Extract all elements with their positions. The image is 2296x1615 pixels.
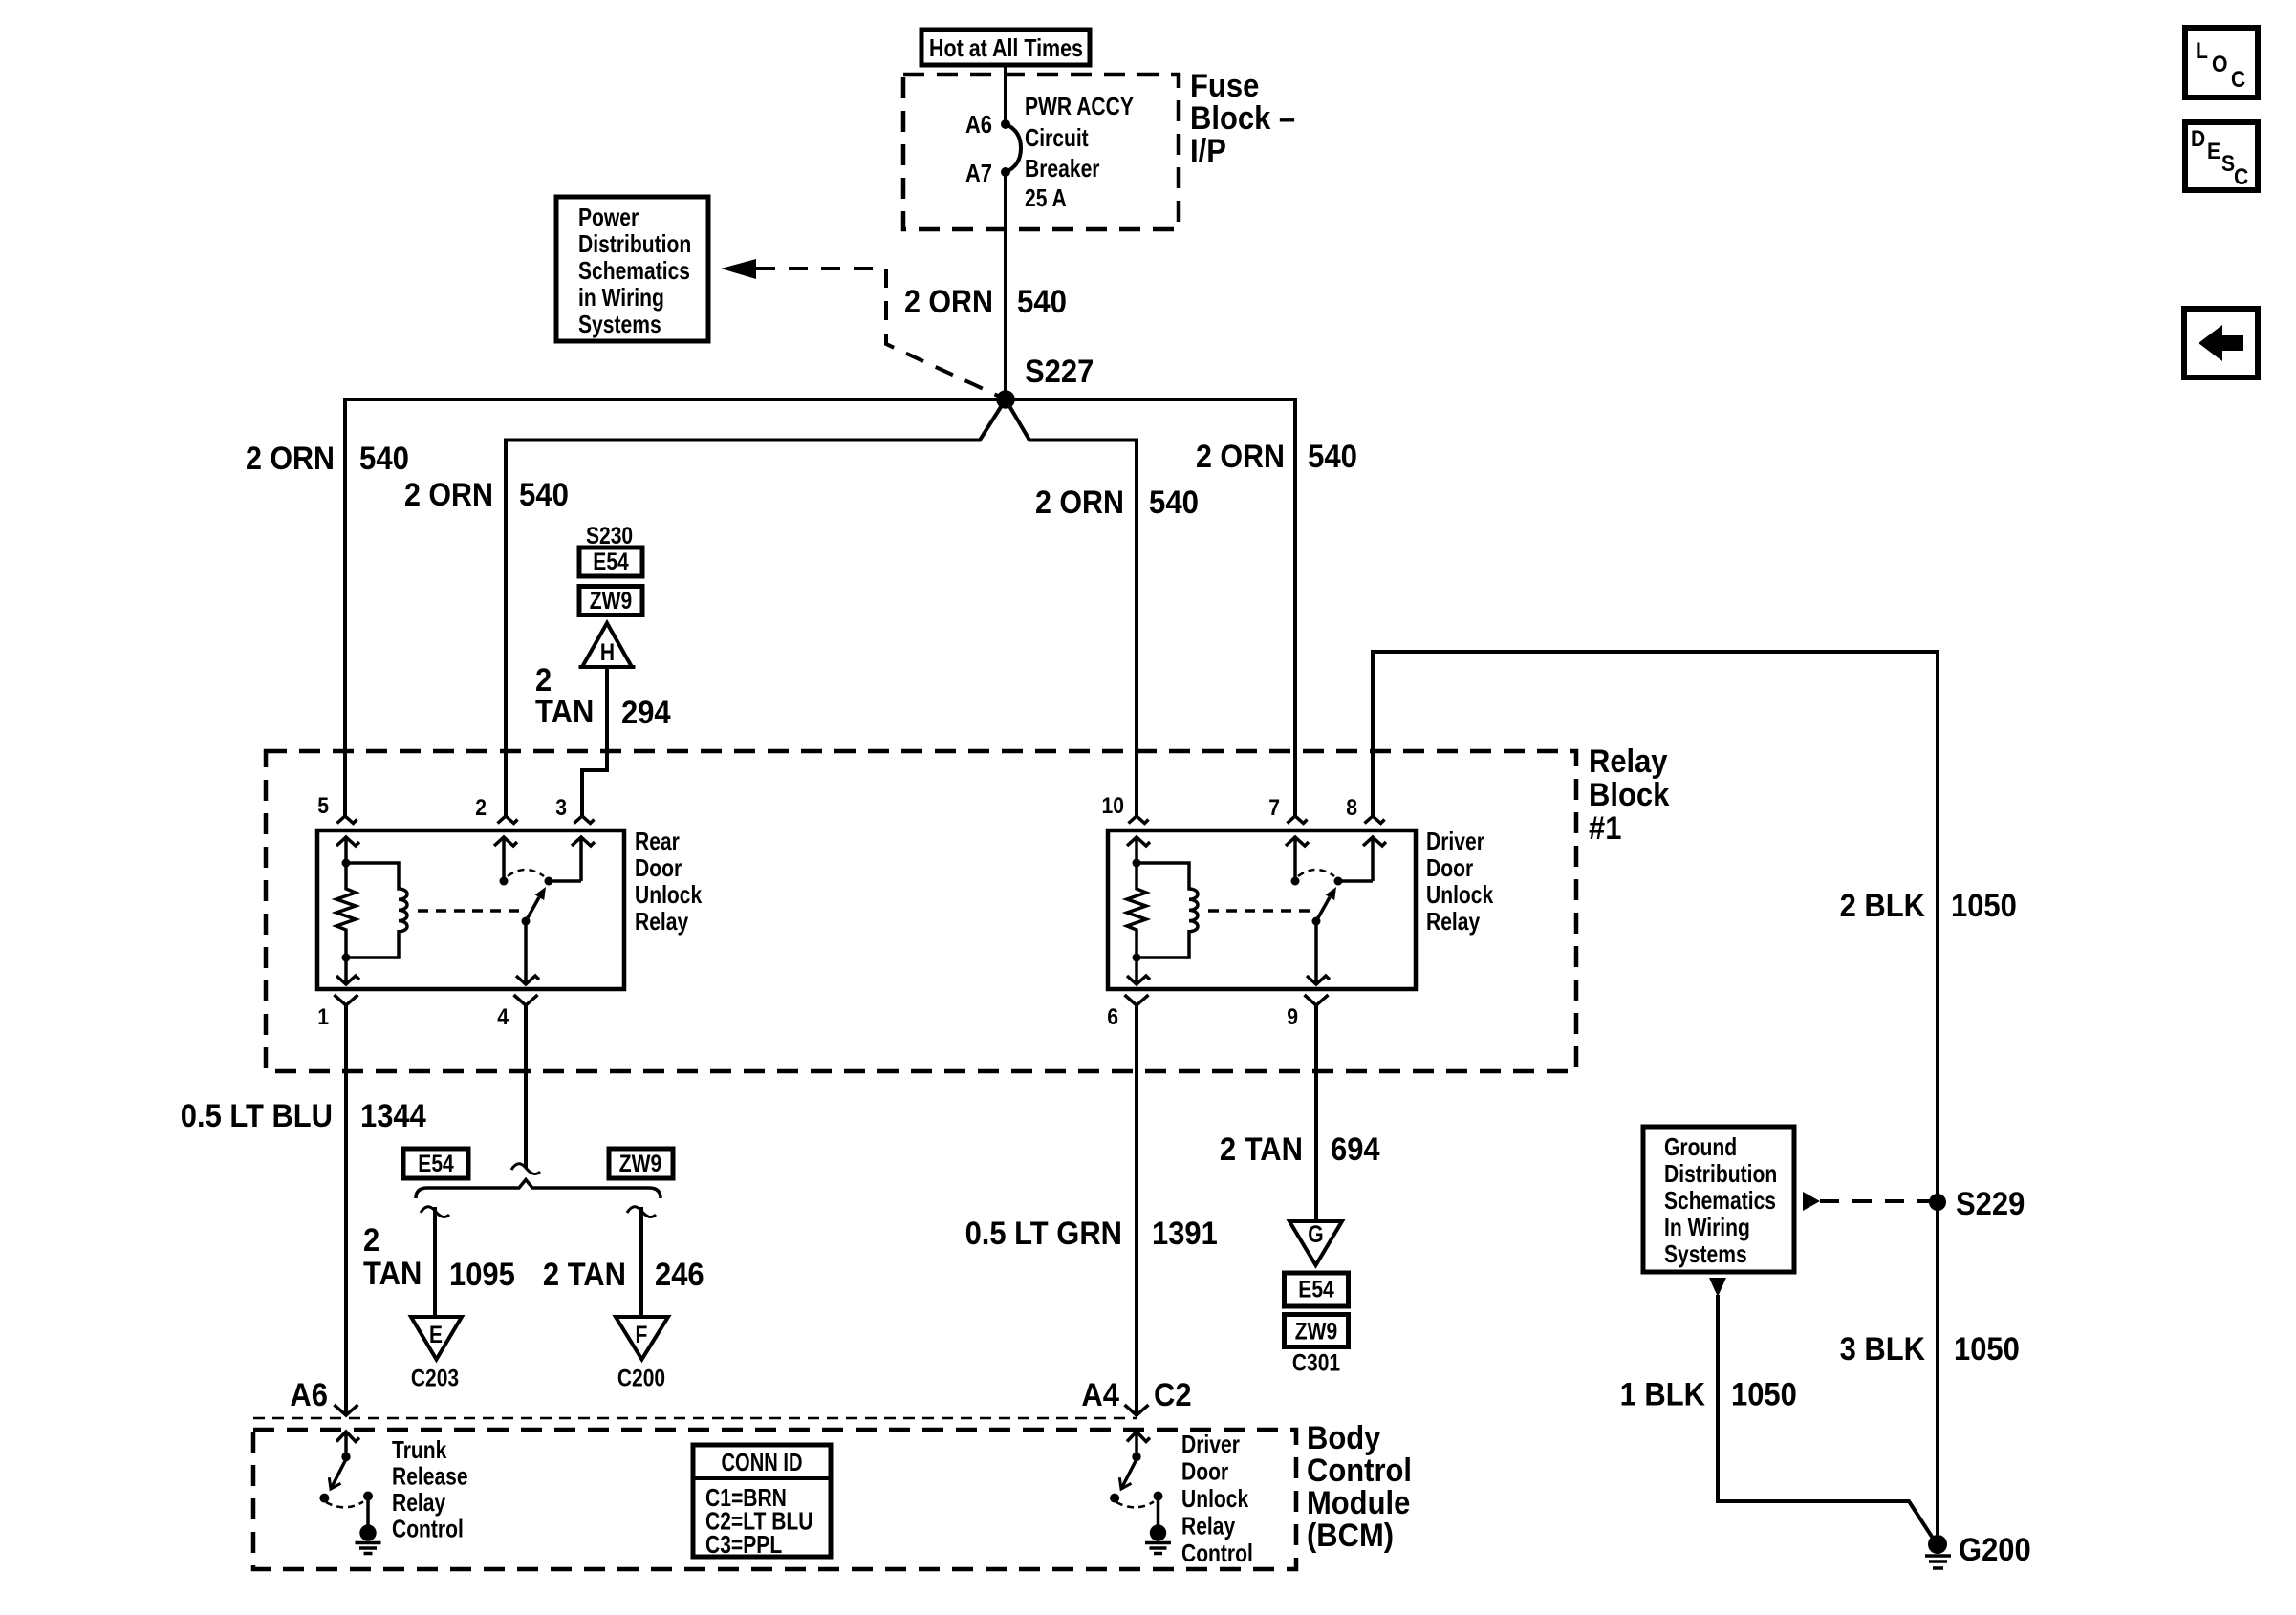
svg-text:5: 5	[317, 793, 329, 819]
Relay Block #1 dashed boundary	[266, 751, 1576, 1071]
wire: 2 TAN from relay pin 4 to harness brace	[524, 1005, 528, 1168]
svg-text:1050: 1050	[1951, 888, 2017, 924]
relay internal pin 4 arrow	[516, 921, 539, 984]
svg-text:C203: C203	[411, 1366, 459, 1392]
svg-text:3: 3	[555, 795, 567, 821]
svg-text:1095: 1095	[449, 1257, 515, 1293]
svg-text:540: 540	[1308, 439, 1357, 475]
armature pivot dot (pin 4 common)	[522, 917, 531, 926]
driver door unlock driver output: ball	[1150, 1524, 1166, 1540]
relay internal pin 8 arrow	[1363, 837, 1386, 881]
svg-text:ZW9: ZW9	[1295, 1319, 1337, 1346]
svg-text:C: C	[2231, 67, 2245, 93]
svg-text:25 A: 25 A	[1025, 183, 1067, 212]
svg-text:0.5 LT BLU: 0.5 LT BLU	[181, 1098, 333, 1134]
svg-text:9: 9	[1287, 1004, 1298, 1030]
svg-text:2 ORN: 2 ORN	[404, 477, 493, 513]
inline splice squiggle (E drop)	[421, 1207, 449, 1217]
svg-text:Relay: Relay	[1426, 907, 1481, 936]
svg-text:C2: C2	[1154, 1377, 1192, 1413]
svg-text:Control: Control	[1181, 1539, 1253, 1567]
driver door unlock driver output: pin dot and stem	[1154, 1492, 1163, 1527]
relay suppression resistor	[336, 863, 356, 958]
svg-text:540: 540	[1149, 484, 1199, 521]
connector chevron pin 4	[514, 995, 538, 1005]
wire: S227 inner-right branch to relay pin 10 (2 ORN 540)	[1006, 399, 1137, 816]
relay internal pin 3 arrow	[572, 837, 595, 881]
Ground Distribution Schematics In Wiring Systems reference box	[1643, 1127, 1794, 1272]
svg-text:D: D	[2191, 126, 2205, 152]
svg-text:294: 294	[621, 695, 671, 731]
svg-text:1344: 1344	[360, 1098, 426, 1134]
label: 2 TAN 246	[543, 1257, 704, 1293]
back-arrow navigation box	[2184, 309, 2258, 377]
trunk release driver switch: contact dot	[319, 1494, 329, 1503]
label: 2 TAN 694	[1220, 1131, 1380, 1168]
svg-text:Distribution: Distribution	[578, 229, 691, 258]
svg-text:Control: Control	[392, 1515, 464, 1543]
svg-text:in Wiring: in Wiring	[578, 283, 664, 312]
LOC reference box	[2185, 28, 2258, 97]
svg-text:Trunk: Trunk	[392, 1435, 447, 1464]
svg-text:G: G	[1308, 1221, 1323, 1248]
svg-text:TAN: TAN	[535, 694, 594, 730]
DESC reference box	[2185, 122, 2258, 190]
normally-closed contact dot (to pin 2)	[500, 877, 509, 886]
svg-text:Unlock: Unlock	[1181, 1484, 1249, 1513]
connector chevron pin 3	[574, 816, 595, 824]
label: 3 BLK 1050	[1840, 1331, 2020, 1367]
svg-text:Schematics: Schematics	[1664, 1186, 1776, 1215]
wire: 2 TAN 246 brace to connector F	[639, 1207, 643, 1317]
svg-text:E54: E54	[1298, 1277, 1333, 1303]
relay internal pin 1 arrow	[336, 958, 359, 984]
svg-text:10: 10	[1102, 793, 1125, 819]
svg-text:Systems: Systems	[1664, 1239, 1747, 1268]
svg-text:F: F	[636, 1322, 648, 1348]
label: 0.5 LT GRN 1391	[965, 1216, 1218, 1252]
relay coil	[1137, 863, 1198, 958]
BCM dashed boundary	[253, 1430, 1296, 1569]
terminal A7 dot	[1001, 167, 1010, 177]
wire: 0.5 LT GRN 1391 from relay pin 6 to BCM A4	[1135, 1005, 1138, 1415]
connector chevron pin 7	[1288, 816, 1308, 824]
filled arrow below ground distribution box	[1709, 1278, 1726, 1297]
label: 2 TAN 294	[535, 662, 671, 731]
wire: 2 BLK 1050 from relay pin 8 over to right bus and down to S229	[1373, 652, 1938, 1202]
label: 2 TAN 1095	[363, 1222, 515, 1293]
svg-text:1: 1	[317, 1004, 329, 1030]
svg-text:540: 540	[359, 441, 409, 477]
svg-text:0.5 LT GRN: 0.5 LT GRN	[965, 1216, 1122, 1252]
svg-text:S227: S227	[1025, 354, 1094, 390]
label: 1 BLK 1050	[1620, 1377, 1797, 1413]
wire: 2 TAN 694 from relay pin 9 to connector G	[1314, 1005, 1318, 1221]
svg-text:1050: 1050	[1954, 1331, 2020, 1367]
svg-text:C301: C301	[1292, 1350, 1340, 1377]
trunk release driver output: ball	[359, 1524, 376, 1540]
label: 2 ORN 540 (pin 10 branch)	[1035, 484, 1199, 521]
svg-text:Rear: Rear	[635, 827, 680, 855]
driver door unlock driver switch: travel dashed arc	[1116, 1502, 1154, 1508]
svg-text:E54: E54	[418, 1151, 453, 1177]
connector chevron pin 10	[1129, 816, 1149, 824]
armature pivot dot (pin 9 common)	[1312, 917, 1321, 926]
label: Driver Door Unlock Relay	[1426, 827, 1494, 936]
svg-text:Body: Body	[1307, 1420, 1380, 1456]
svg-text:2: 2	[475, 795, 487, 821]
svg-text:L: L	[2196, 38, 2208, 64]
CONN ID table box	[693, 1445, 831, 1559]
relay internal pin 9 arrow	[1307, 921, 1330, 984]
option box E54 (left)	[403, 1149, 468, 1178]
svg-text:2 ORN: 2 ORN	[904, 284, 993, 320]
wire: 0.5 LT BLU 1344 from relay pin 1 to BCM A6	[344, 1005, 348, 1415]
svg-text:4: 4	[497, 1004, 509, 1030]
svg-text:8: 8	[1346, 795, 1357, 821]
svg-text:Control: Control	[1307, 1453, 1412, 1489]
wire: 2 ORN 540 from breaker A7 down to splice S227	[1004, 172, 1007, 399]
BCM connector face (thin dashed line)	[253, 1417, 1137, 1420]
svg-text:A4: A4	[1081, 1377, 1119, 1413]
ground (driver door unlock driver)	[1145, 1543, 1171, 1554]
svg-text:CONN ID: CONN ID	[722, 1448, 803, 1476]
svg-text:Block: Block	[1589, 777, 1669, 813]
svg-text:Module: Module	[1307, 1485, 1410, 1521]
svg-text:Fuse: Fuse	[1190, 68, 1259, 104]
normally-closed contact dot (to pin 7)	[1291, 877, 1300, 886]
relay internal pin 2 arrow	[494, 837, 517, 881]
svg-text:6: 6	[1107, 1004, 1118, 1030]
svg-text:ZW9: ZW9	[590, 588, 632, 614]
connector chevron pin 8	[1365, 816, 1385, 824]
svg-text:7: 7	[1268, 795, 1280, 821]
svg-text:ZW9: ZW9	[619, 1151, 661, 1177]
coil-to-armature dashed link	[418, 909, 519, 913]
svg-text:2 TAN: 2 TAN	[543, 1257, 626, 1293]
inline splice squiggle on pin 4 wire	[511, 1164, 540, 1174]
Fuse Block - I/P dashed boundary	[903, 75, 1179, 229]
label: PWR ACCY Circuit Breaker 25 A	[1025, 92, 1134, 212]
svg-text:O: O	[2212, 52, 2228, 77]
relay coil	[346, 863, 407, 958]
terminal A6 dot	[1001, 119, 1010, 129]
svg-text:2 BLK: 2 BLK	[1840, 888, 1926, 924]
svg-text:TAN: TAN	[363, 1256, 422, 1292]
circuit breaker PWR ACCY 25 A (arc A6 to A7)	[1006, 124, 1021, 172]
wire: 1 BLK 1050 from ground distribution reference to G200	[1718, 1295, 1934, 1540]
wire: S227 right branch to relay pin 7 (2 ORN 540)	[1006, 399, 1295, 816]
off-page connector G (triangle)	[1289, 1221, 1342, 1265]
connector chevron pin 5	[337, 816, 357, 824]
svg-text:E: E	[2207, 139, 2220, 164]
svg-text:Door: Door	[635, 853, 682, 882]
svg-text:C200: C200	[617, 1366, 665, 1392]
svg-text:Ground: Ground	[1664, 1132, 1737, 1161]
svg-text:Driver: Driver	[1181, 1430, 1240, 1458]
svg-text:1 BLK: 1 BLK	[1620, 1377, 1706, 1413]
relay suppression resistor	[1127, 863, 1146, 958]
normally-open contact dot (to pin 3)	[545, 877, 553, 886]
svg-text:Driver: Driver	[1426, 827, 1484, 855]
label: Body Control Module (BCM)	[1307, 1420, 1412, 1554]
label: 2 ORN 540 (pin 7 branch)	[1196, 439, 1357, 475]
svg-text:In Wiring: In Wiring	[1664, 1213, 1750, 1241]
svg-text:Relay: Relay	[1589, 743, 1668, 780]
wire: S227 inner-left branch to relay pin 2 (2 ORN 540)	[506, 399, 1006, 816]
dashed reference arrow to power distribution box	[721, 259, 998, 396]
coil-to-armature dashed link	[1208, 909, 1310, 913]
label: 2 ORN 540 (pin 5 branch)	[246, 441, 409, 477]
wire: S227 left branch to relay pin 5 (2 ORN 540)	[345, 399, 1006, 816]
normally-open contact dot (to pin 8)	[1334, 877, 1343, 886]
label: Trunk Release Relay Control	[392, 1435, 468, 1543]
svg-text:Distribution: Distribution	[1664, 1159, 1777, 1188]
BCM internal arrow at A4	[1127, 1432, 1150, 1453]
trunk release driver switch: travel dashed arc	[326, 1502, 363, 1508]
svg-text:2 ORN: 2 ORN	[1196, 439, 1285, 475]
svg-text:Unlock: Unlock	[1426, 880, 1494, 909]
armature arm with arrowhead	[526, 887, 546, 921]
off-page connector E (triangle)	[411, 1317, 462, 1360]
relay: Driver Door Unlock Relay (box)	[1108, 830, 1416, 989]
connector chevron pin 9	[1305, 995, 1329, 1005]
option box ZW9	[579, 587, 642, 615]
contact travel dashed arc	[508, 870, 544, 876]
svg-text:E: E	[429, 1322, 443, 1348]
svg-text:Door: Door	[1426, 853, 1473, 882]
svg-text:Circuit: Circuit	[1025, 123, 1089, 152]
svg-text:540: 540	[1017, 284, 1067, 320]
svg-text:2: 2	[363, 1222, 379, 1259]
svg-text:3 BLK: 3 BLK	[1840, 1331, 1926, 1367]
svg-text:C3=PPL: C3=PPL	[705, 1530, 782, 1559]
svg-text:Schematics: Schematics	[578, 256, 690, 285]
off-page connector F (triangle)	[616, 1317, 668, 1360]
BCM internal arrow at A6	[336, 1432, 359, 1453]
svg-text:PWR ACCY: PWR ACCY	[1025, 92, 1134, 120]
svg-text:2 ORN: 2 ORN	[246, 441, 335, 477]
dashed reference arrow from ground distribution box to S229	[1803, 1192, 1931, 1211]
svg-text:Block –: Block –	[1190, 100, 1295, 137]
driver door unlock driver switch: arm with arrowhead	[1119, 1459, 1137, 1489]
svg-text:#1: #1	[1589, 810, 1621, 847]
ground G200 node	[1928, 1535, 1947, 1554]
svg-text:540: 540	[519, 477, 569, 513]
svg-text:Door: Door	[1181, 1457, 1228, 1486]
svg-text:Breaker: Breaker	[1025, 154, 1100, 183]
wire: 2 TAN 1095 brace to connector E	[433, 1207, 437, 1317]
ground symbol G200	[1925, 1556, 1951, 1568]
driver door unlock driver switch: pivot dot	[1132, 1453, 1140, 1461]
svg-text:A6: A6	[965, 110, 992, 139]
relay internal pin 6 arrow	[1127, 958, 1150, 984]
label: Fuse Block - I/P	[1190, 68, 1295, 169]
svg-text:1391: 1391	[1152, 1216, 1218, 1252]
svg-text:G200: G200	[1959, 1532, 2031, 1568]
svg-text:2 TAN: 2 TAN	[1220, 1131, 1303, 1168]
svg-text:694: 694	[1331, 1131, 1380, 1168]
relay internal pin 7 arrow	[1286, 837, 1309, 881]
svg-text:1050: 1050	[1731, 1377, 1797, 1413]
connector chevron pin 6	[1125, 995, 1149, 1005]
svg-text:Release: Release	[392, 1462, 468, 1491]
connector chevron at BCM A4	[1125, 1405, 1149, 1415]
contact travel dashed arc	[1298, 870, 1334, 876]
svg-text:2 ORN: 2 ORN	[1035, 484, 1124, 521]
svg-text:246: 246	[655, 1257, 704, 1293]
label: Rear Door Unlock Relay	[635, 827, 703, 936]
off-page connector H (triangle)	[579, 623, 636, 667]
svg-text:Relay: Relay	[635, 907, 689, 936]
armature arm with arrowhead	[1316, 887, 1336, 921]
label: Driver Door Unlock Relay Control	[1181, 1430, 1253, 1567]
label: 2 BLK 1050	[1840, 888, 2017, 924]
splice S227 node	[996, 390, 1015, 409]
driver door unlock driver switch: contact dot	[1110, 1494, 1119, 1503]
svg-text:A7: A7	[965, 159, 992, 187]
label: 2 ORN 540 (pin 2 branch)	[404, 477, 569, 513]
option box ZW9 (G path)	[1285, 1315, 1349, 1347]
label: 0.5 LT BLU 1344	[181, 1098, 426, 1134]
svg-text:Relay: Relay	[392, 1488, 446, 1517]
relay: Rear Door Unlock Relay (box)	[317, 830, 624, 989]
trunk release driver switch: arm with arrowhead	[329, 1459, 346, 1489]
svg-text:I/P: I/P	[1190, 133, 1226, 169]
svg-text:A6: A6	[290, 1377, 328, 1413]
trunk release driver output: pin dot and stem	[363, 1492, 373, 1527]
connector chevron pin 1	[335, 995, 358, 1005]
relay internal pin 10 arrow	[1127, 837, 1150, 863]
svg-text:E54: E54	[593, 549, 628, 575]
splice S229 node	[1929, 1194, 1946, 1211]
relay internal node dots (coil top/bottom)	[342, 859, 351, 962]
svg-text:C: C	[2234, 164, 2248, 190]
relay internal node dots (coil top/bottom)	[1133, 859, 1141, 962]
wire: NO contact to pin 3 riser	[549, 879, 581, 883]
svg-text:H: H	[600, 639, 615, 666]
wire: 2 TAN 294 from connector H down to relay pin 3	[582, 667, 607, 816]
wire: Hot at All Times feed into fuse block, terminal A6	[1004, 65, 1007, 124]
inline splice squiggle (F drop)	[627, 1207, 656, 1217]
svg-text:Power: Power	[578, 203, 639, 231]
svg-text:S: S	[2221, 151, 2235, 177]
trunk release driver switch: pivot dot	[341, 1453, 350, 1461]
svg-text:(BCM): (BCM)	[1307, 1518, 1394, 1554]
svg-text:Relay: Relay	[1181, 1512, 1236, 1540]
label: 2 ORN 540 (breaker output)	[904, 284, 1067, 320]
wire: NO contact to pin 8 riser	[1338, 879, 1373, 883]
label: Relay Block #1	[1589, 743, 1669, 847]
svg-text:S229: S229	[1956, 1186, 2025, 1222]
option box ZW9 (right)	[609, 1149, 673, 1178]
ground (trunk release driver)	[356, 1543, 381, 1554]
option box E54	[579, 548, 642, 576]
Power Distribution Schematics in Wiring Systems reference box	[556, 197, 708, 341]
"Hot at All Times" power feed box	[921, 30, 1090, 65]
relay internal pin 5 arrow	[336, 837, 359, 863]
connector chevron pin 2	[498, 816, 518, 824]
wire: 3 BLK 1050 from S229 down to G200	[1936, 1202, 1939, 1543]
svg-text:Hot at All Times: Hot at All Times	[929, 33, 1083, 62]
harness option brace	[416, 1180, 661, 1199]
svg-text:Unlock: Unlock	[635, 880, 703, 909]
option box E54 (G path)	[1285, 1273, 1349, 1306]
svg-text:Systems: Systems	[578, 310, 661, 338]
connector chevron at BCM A6	[335, 1405, 358, 1415]
